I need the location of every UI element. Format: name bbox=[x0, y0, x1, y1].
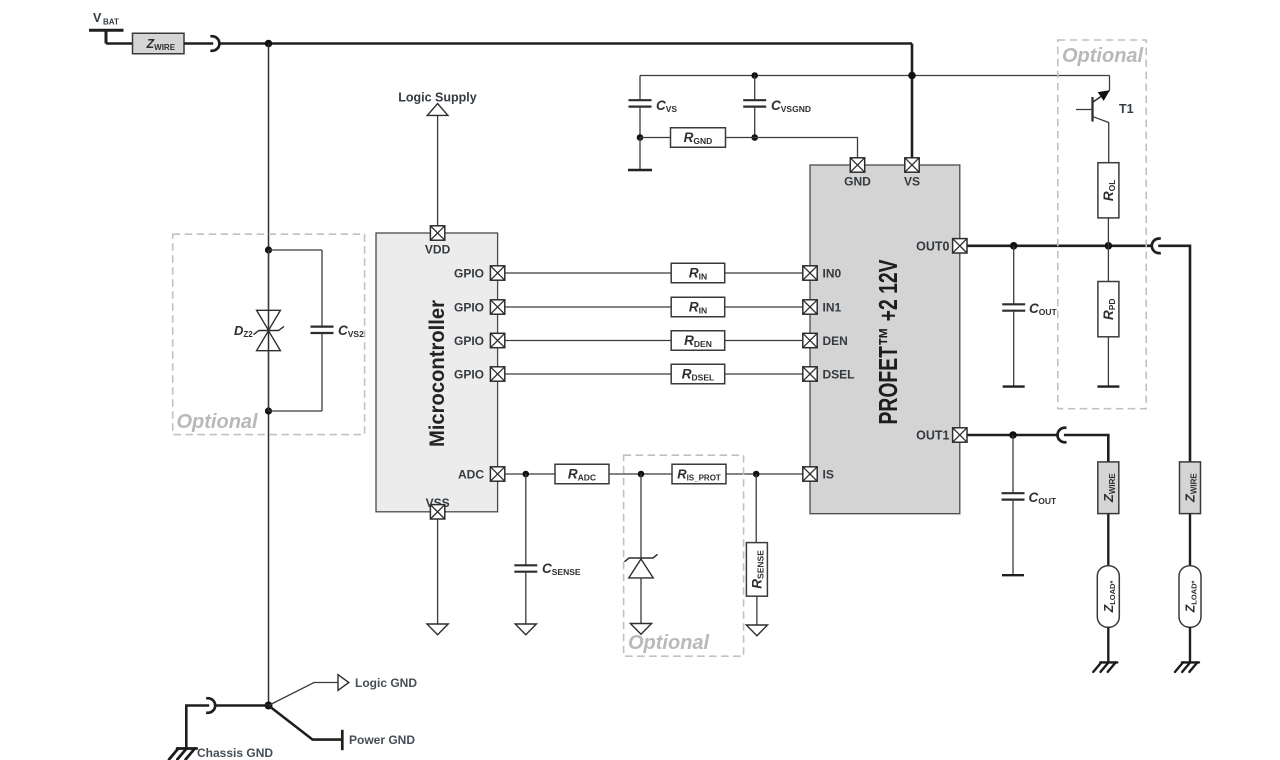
svg-text:GPIO: GPIO bbox=[454, 301, 484, 315]
TVS diode DZ2 bbox=[234, 250, 284, 411]
svg-text:BAT: BAT bbox=[103, 18, 119, 27]
svg-text:OUT1: OUT1 bbox=[916, 429, 949, 443]
wire VBAT rail bbox=[219, 42, 912, 45]
resistor ZWIRE (supply line impedance) bbox=[106, 33, 184, 54]
svg-text:V: V bbox=[93, 11, 102, 25]
resistor RIN bbox=[671, 263, 725, 283]
wire RIN to IN0 bbox=[725, 272, 803, 274]
junction zener tap bbox=[638, 471, 645, 478]
resistor RIS_PROT bbox=[672, 464, 726, 484]
wire RADC to RIS_PROT bbox=[609, 473, 672, 475]
wire RIN to IN1 bbox=[725, 306, 803, 308]
svg-text:ADC: ADC bbox=[458, 468, 484, 482]
pin VS bbox=[904, 158, 920, 189]
wire Logic GND bbox=[269, 683, 339, 706]
svg-text:Power GND: Power GND bbox=[349, 733, 415, 747]
svg-text:IS: IS bbox=[823, 468, 834, 482]
wire VBAT to connector bbox=[184, 42, 213, 45]
svg-text:Logic Supply: Logic Supply bbox=[398, 91, 477, 105]
wire battery net vertical bbox=[268, 44, 270, 706]
svg-text:Chassis GND: Chassis GND bbox=[197, 746, 273, 760]
junction ROL/RPD tap bbox=[1105, 242, 1113, 250]
capacitor COUT (OUT1) bbox=[1002, 435, 1058, 575]
ground (RSENSE) bbox=[746, 625, 767, 636]
pin IN1 bbox=[803, 300, 842, 315]
resistor ROL bbox=[1098, 163, 1119, 246]
capacitor CVS2 bbox=[269, 250, 365, 411]
svg-text:VDD: VDD bbox=[425, 243, 451, 257]
svg-text:CVS2: CVS2 bbox=[338, 323, 364, 339]
chassis ground (OUT1 load return) bbox=[1093, 662, 1117, 672]
junction CSENSE tap bbox=[523, 471, 530, 478]
resistor RPD bbox=[1098, 246, 1119, 387]
junction CVSGND top bbox=[751, 72, 758, 79]
junction ground star point bbox=[265, 702, 273, 710]
load ZLOAD* (OUT1) bbox=[1097, 566, 1119, 628]
junction DZ2 top bbox=[265, 246, 272, 253]
svg-text:GPIO: GPIO bbox=[454, 267, 484, 281]
svg-text:Logic GND: Logic GND bbox=[355, 676, 417, 690]
pin GPIO (DEN drive) bbox=[454, 333, 505, 348]
svg-text:CVSGND: CVSGND bbox=[771, 98, 811, 114]
svg-text:GPIO: GPIO bbox=[454, 334, 484, 348]
svg-text:COUT: COUT bbox=[1029, 490, 1058, 506]
load ZLOAD* (OUT0) bbox=[1179, 566, 1201, 628]
ground bar (COUT OUT1) bbox=[1002, 574, 1024, 576]
resistor ZWIRE (OUT0 harness) bbox=[1180, 462, 1201, 514]
svg-text:Optional: Optional bbox=[628, 632, 710, 654]
wire connector to star point bbox=[215, 704, 269, 707]
connector (OUT1 to load) bbox=[1058, 428, 1067, 443]
wire VS rail to T1 emitter bbox=[1109, 76, 1111, 91]
pin VDD bbox=[425, 226, 451, 257]
pin OUT1 bbox=[916, 428, 967, 443]
svg-text:PROFET™ +2 12V: PROFET™ +2 12V bbox=[873, 259, 903, 424]
pin ADC bbox=[458, 467, 505, 482]
junction COUT0 tap bbox=[1010, 242, 1018, 250]
power flag Logic Supply bbox=[398, 91, 477, 116]
optional box (IS clamp) bbox=[624, 455, 744, 656]
pin IS bbox=[803, 467, 834, 482]
wire RIS_PROT to IS bbox=[726, 473, 803, 475]
svg-text:Optional: Optional bbox=[177, 411, 259, 433]
chassis ground (OUT0 load return) bbox=[1175, 662, 1199, 672]
wire OUT0 to right load branch bbox=[1158, 246, 1190, 462]
wire ZWIRE to ZLOAD (OUT1) bbox=[1107, 514, 1109, 566]
resistor RGND bbox=[640, 128, 726, 148]
capacitor CSENSE bbox=[514, 474, 581, 624]
svg-text:CSENSE: CSENSE bbox=[542, 561, 581, 577]
junction RSENSE tap bbox=[753, 471, 760, 478]
pin GPIO (IN1 drive) bbox=[454, 300, 505, 315]
pin GND bbox=[844, 158, 871, 189]
wire chassis feed bbox=[186, 706, 209, 748]
power flag Logic GND bbox=[338, 675, 417, 691]
resistor RDEN bbox=[671, 331, 725, 351]
resistor RSENSE bbox=[746, 474, 767, 625]
optional box (transient protection) bbox=[173, 234, 365, 434]
svg-text:IN0: IN0 bbox=[823, 267, 842, 281]
wire RGND to GND pin bbox=[726, 138, 858, 158]
wire Power GND bbox=[269, 706, 342, 740]
wire Logic Supply to VDD bbox=[437, 115, 439, 225]
ground bar (CVS return) bbox=[628, 138, 652, 171]
wire ZWIRE to ZLOAD (OUT0) bbox=[1189, 514, 1191, 566]
wire RDSEL to DSEL bbox=[725, 373, 803, 375]
resistor RIN bbox=[671, 297, 725, 317]
svg-text:Optional: Optional bbox=[1062, 45, 1144, 67]
pin GPIO (DSEL drive) bbox=[454, 367, 505, 382]
wire VS decoupling rail bbox=[640, 75, 1110, 77]
svg-text:DSEL: DSEL bbox=[823, 368, 855, 382]
svg-text:GND: GND bbox=[844, 175, 871, 189]
junction DZ2 bottom bbox=[265, 407, 272, 414]
junction VBAT rail / board net bbox=[265, 40, 273, 48]
wire GPIO to RIN1 bbox=[505, 306, 671, 308]
capacitor CVSGND bbox=[743, 76, 811, 138]
capacitor COUT (OUT0) bbox=[1002, 246, 1057, 387]
ground (zener) bbox=[630, 624, 651, 635]
junction CVSGND / RGND bbox=[751, 134, 758, 141]
capacitor CVS bbox=[629, 76, 678, 138]
smart switch U2 PROFET +2 12V bbox=[810, 165, 960, 514]
power flag Power GND (bar) bbox=[342, 730, 415, 750]
pin DEN bbox=[803, 333, 848, 348]
svg-text:DEN: DEN bbox=[823, 334, 848, 348]
optional box (open-load detection) bbox=[1058, 40, 1146, 409]
pin IN0 bbox=[803, 266, 842, 281]
wire VSS to ground bbox=[437, 519, 439, 624]
wire OUT1 to left load branch bbox=[1064, 435, 1108, 462]
svg-text:COUT: COUT bbox=[1029, 301, 1058, 317]
resistor RADC bbox=[555, 464, 609, 484]
wire ZLOAD to chassis (OUT1) bbox=[1107, 627, 1109, 662]
resistor RDSEL bbox=[671, 364, 725, 384]
pin VSS bbox=[426, 496, 450, 519]
svg-text:IN1: IN1 bbox=[823, 301, 842, 315]
chassis ground bbox=[169, 749, 197, 760]
resistor ZWIRE (OUT1 harness) bbox=[1098, 462, 1119, 514]
wire GPIO to RDEN bbox=[505, 340, 671, 342]
wire ADC to RADC bbox=[505, 473, 555, 475]
svg-text:VS: VS bbox=[904, 175, 920, 189]
svg-text:T1: T1 bbox=[1119, 102, 1134, 116]
wire OUT0 rail bbox=[967, 245, 1152, 248]
wire GPIO to RIN0 bbox=[505, 272, 671, 274]
microcontroller U1 bbox=[376, 233, 498, 512]
junction COUT1 tap bbox=[1009, 431, 1017, 439]
junction CVS / RGND bbox=[637, 134, 644, 141]
svg-text:OUT0: OUT0 bbox=[916, 240, 949, 254]
ground bar (RPD) bbox=[1097, 385, 1119, 387]
ground (VSS) bbox=[427, 624, 448, 635]
transistor T1 bbox=[1076, 90, 1134, 162]
wire GPIO to RDSEL bbox=[505, 373, 671, 375]
connector (supply plug) bbox=[210, 36, 219, 51]
svg-text:CVS: CVS bbox=[656, 98, 677, 114]
junction VS rail bbox=[908, 72, 916, 80]
zener diode DZ1 (IS clamp) bbox=[625, 474, 658, 624]
pin GPIO (IN0 drive) bbox=[454, 266, 505, 281]
connector (OUT0 to load) bbox=[1152, 238, 1161, 253]
connector (ground plug) bbox=[206, 698, 215, 713]
node VBAT supply terminal bbox=[89, 11, 124, 44]
wire ZLOAD to chassis (OUT0) bbox=[1189, 627, 1191, 662]
svg-text:DZ2: DZ2 bbox=[234, 323, 253, 339]
pin DSEL bbox=[803, 367, 855, 382]
svg-text:GPIO: GPIO bbox=[454, 368, 484, 382]
ground (CSENSE) bbox=[515, 624, 536, 635]
svg-text:Microcontroller: Microcontroller bbox=[426, 300, 449, 447]
wire RDEN to DEN bbox=[725, 340, 803, 342]
pin OUT0 bbox=[916, 239, 967, 254]
wire VS drop bbox=[911, 44, 914, 159]
ground bar (COUT OUT0) bbox=[1003, 385, 1025, 387]
wire OUT1 rail bbox=[967, 434, 1058, 437]
